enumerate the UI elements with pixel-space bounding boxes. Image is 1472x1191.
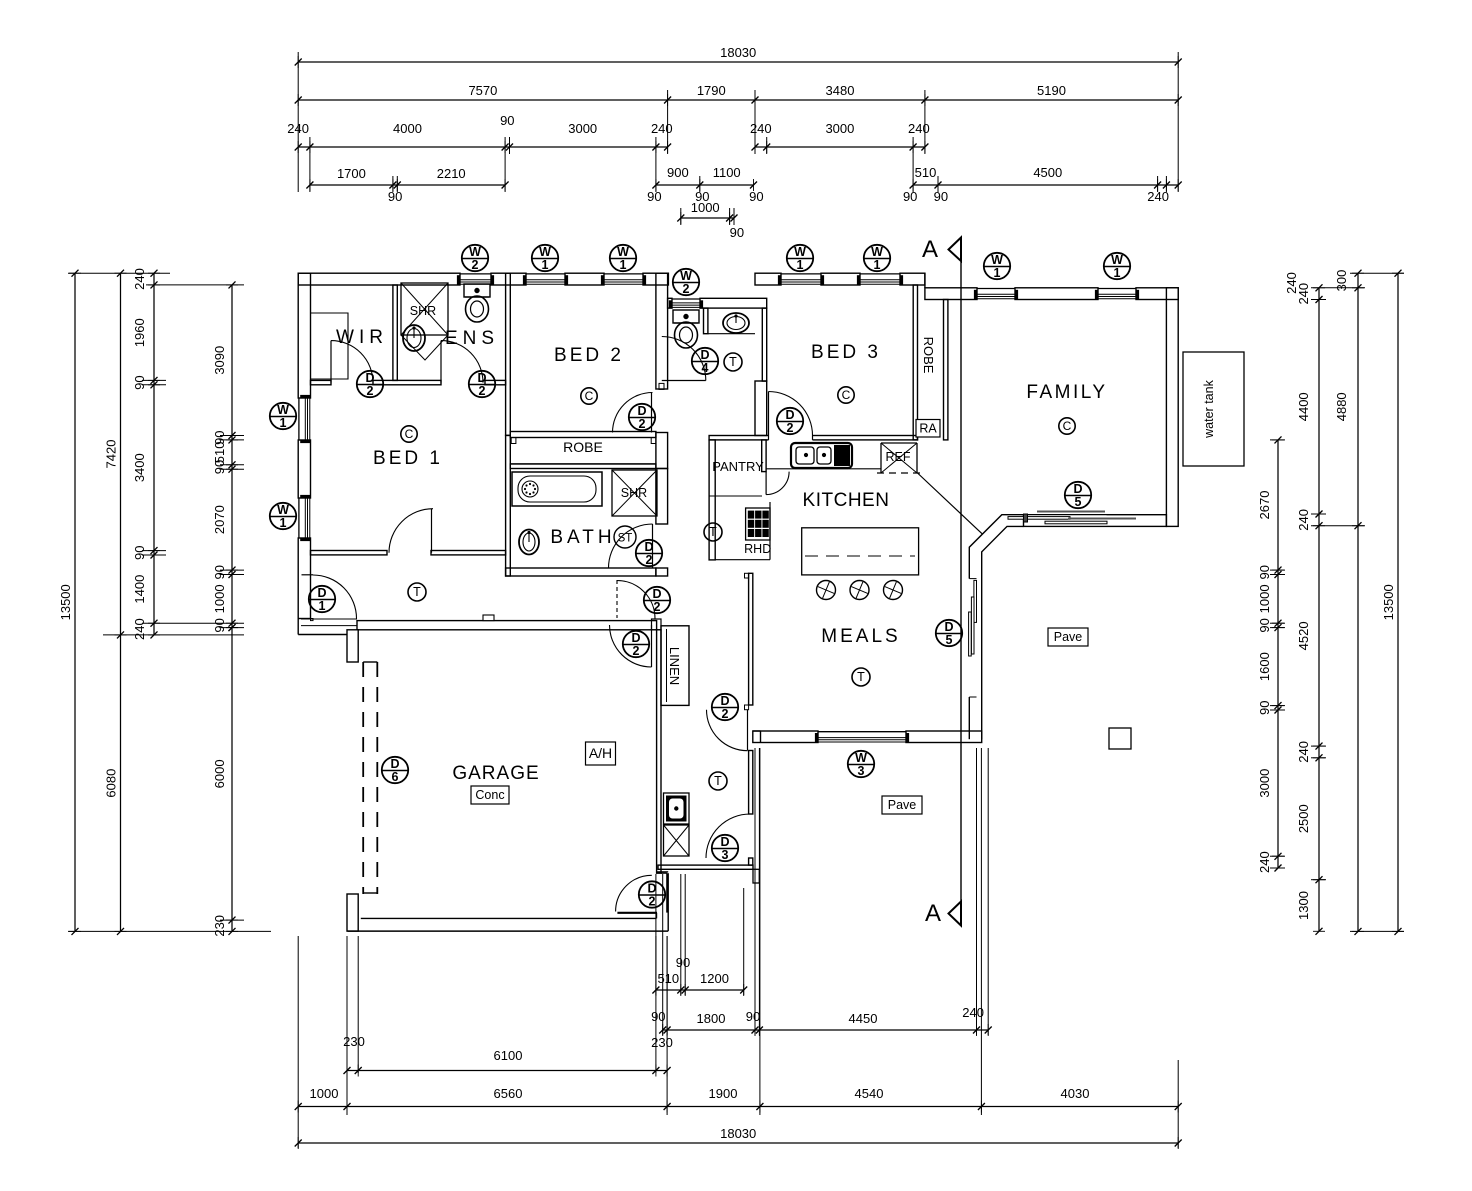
svg-text:6: 6 bbox=[392, 770, 399, 784]
svg-text:1: 1 bbox=[542, 258, 549, 272]
svg-text:90: 90 bbox=[676, 955, 690, 970]
svg-text:90: 90 bbox=[1257, 565, 1272, 579]
svg-text:240: 240 bbox=[962, 1005, 984, 1020]
svg-text:W: W bbox=[539, 245, 551, 259]
svg-text:W: W bbox=[871, 245, 883, 259]
svg-text:6000: 6000 bbox=[212, 759, 227, 788]
svg-text:18030: 18030 bbox=[720, 45, 756, 60]
svg-text:1000: 1000 bbox=[691, 200, 720, 215]
svg-text:BED 3: BED 3 bbox=[811, 342, 881, 363]
svg-text:2070: 2070 bbox=[212, 505, 227, 534]
svg-text:1400: 1400 bbox=[132, 575, 147, 604]
svg-text:1800: 1800 bbox=[697, 1011, 726, 1026]
svg-text:W: W bbox=[1111, 253, 1123, 267]
svg-text:4450: 4450 bbox=[849, 1011, 878, 1026]
svg-text:1300: 1300 bbox=[1296, 891, 1311, 920]
svg-text:240: 240 bbox=[1284, 272, 1299, 294]
svg-text:D: D bbox=[477, 371, 486, 385]
svg-text:1200: 1200 bbox=[700, 971, 729, 986]
svg-text:230: 230 bbox=[343, 1034, 365, 1049]
svg-text:Pave: Pave bbox=[1054, 630, 1083, 644]
svg-text:W: W bbox=[991, 253, 1003, 267]
svg-text:240: 240 bbox=[750, 121, 772, 136]
svg-text:D: D bbox=[637, 404, 646, 418]
svg-text:240: 240 bbox=[1257, 851, 1272, 873]
svg-text:1: 1 bbox=[797, 258, 804, 272]
svg-text:5: 5 bbox=[946, 633, 953, 647]
svg-text:2: 2 bbox=[646, 553, 653, 567]
svg-text:FAMILY: FAMILY bbox=[1026, 382, 1107, 403]
svg-text:2670: 2670 bbox=[1257, 491, 1272, 520]
svg-text:4500: 4500 bbox=[1033, 165, 1062, 180]
svg-text:BATH: BATH bbox=[550, 527, 615, 548]
svg-text:1700: 1700 bbox=[337, 166, 366, 181]
svg-text:2: 2 bbox=[472, 258, 479, 272]
svg-text:4540: 4540 bbox=[855, 1086, 884, 1101]
svg-text:900: 900 bbox=[667, 165, 689, 180]
svg-text:6100: 6100 bbox=[494, 1048, 523, 1063]
svg-text:240: 240 bbox=[132, 618, 147, 640]
svg-text:90: 90 bbox=[500, 113, 514, 128]
svg-text:5190: 5190 bbox=[1037, 83, 1066, 98]
svg-text:90: 90 bbox=[730, 225, 744, 240]
svg-text:T: T bbox=[709, 525, 717, 539]
svg-text:Conc: Conc bbox=[475, 788, 504, 802]
svg-text:C: C bbox=[1063, 419, 1072, 433]
svg-text:90: 90 bbox=[1257, 618, 1272, 632]
svg-text:D: D bbox=[644, 540, 653, 554]
svg-text:6560: 6560 bbox=[494, 1086, 523, 1101]
svg-text:13500: 13500 bbox=[58, 584, 73, 620]
svg-text:A/H: A/H bbox=[589, 745, 612, 761]
svg-text:2: 2 bbox=[722, 707, 729, 721]
svg-text:2210: 2210 bbox=[437, 166, 466, 181]
svg-text:3: 3 bbox=[722, 848, 729, 862]
svg-text:T: T bbox=[729, 355, 737, 369]
svg-text:90: 90 bbox=[212, 565, 227, 579]
svg-text:3090: 3090 bbox=[212, 346, 227, 375]
svg-text:230: 230 bbox=[651, 1035, 673, 1050]
svg-text:90: 90 bbox=[212, 618, 227, 632]
svg-text:RA: RA bbox=[919, 422, 937, 436]
svg-text:90: 90 bbox=[388, 189, 402, 204]
svg-text:BED 2: BED 2 bbox=[554, 345, 624, 366]
svg-text:WIR: WIR bbox=[336, 327, 388, 348]
svg-text:4000: 4000 bbox=[393, 121, 422, 136]
svg-text:3000: 3000 bbox=[1257, 769, 1272, 798]
svg-text:3000: 3000 bbox=[568, 121, 597, 136]
svg-text:5: 5 bbox=[1075, 495, 1082, 509]
svg-text:6080: 6080 bbox=[104, 769, 119, 798]
svg-text:90: 90 bbox=[903, 189, 917, 204]
svg-text:W: W bbox=[794, 245, 806, 259]
svg-text:SHR: SHR bbox=[410, 304, 436, 318]
svg-text:D: D bbox=[720, 835, 729, 849]
svg-text:1: 1 bbox=[319, 599, 326, 613]
svg-text:2: 2 bbox=[683, 282, 690, 296]
svg-text:2: 2 bbox=[649, 895, 656, 909]
svg-text:1: 1 bbox=[620, 258, 627, 272]
svg-text:240: 240 bbox=[132, 268, 147, 290]
svg-text:1: 1 bbox=[994, 266, 1001, 280]
svg-text:D: D bbox=[390, 757, 399, 771]
svg-text:4520: 4520 bbox=[1296, 621, 1311, 650]
svg-text:3000: 3000 bbox=[825, 121, 854, 136]
svg-text:D: D bbox=[365, 371, 374, 385]
svg-text:4: 4 bbox=[702, 361, 709, 375]
svg-text:90: 90 bbox=[1257, 701, 1272, 715]
svg-text:W: W bbox=[277, 503, 289, 517]
svg-text:BED 1: BED 1 bbox=[373, 448, 443, 469]
svg-text:1: 1 bbox=[874, 258, 881, 272]
svg-text:T: T bbox=[714, 774, 722, 788]
svg-text:W: W bbox=[277, 403, 289, 417]
svg-text:7420: 7420 bbox=[104, 440, 119, 469]
svg-text:T: T bbox=[857, 670, 865, 684]
svg-text:C: C bbox=[405, 427, 414, 441]
svg-text:90: 90 bbox=[749, 189, 763, 204]
svg-text:ROBE: ROBE bbox=[921, 337, 936, 374]
svg-text:1100: 1100 bbox=[713, 165, 741, 180]
svg-text:LINEN: LINEN bbox=[667, 647, 682, 685]
svg-text:3: 3 bbox=[858, 764, 865, 778]
svg-text:1000: 1000 bbox=[310, 1086, 339, 1101]
svg-text:C: C bbox=[842, 388, 851, 402]
svg-text:PANTRY: PANTRY bbox=[712, 459, 764, 474]
svg-text:MEALS: MEALS bbox=[821, 626, 900, 647]
svg-text:W: W bbox=[855, 751, 867, 765]
svg-text:240: 240 bbox=[651, 121, 673, 136]
svg-text:1: 1 bbox=[1114, 266, 1121, 280]
svg-text:7570: 7570 bbox=[468, 83, 497, 98]
svg-text:2: 2 bbox=[633, 644, 640, 658]
svg-text:D: D bbox=[720, 694, 729, 708]
svg-text:KITCHEN: KITCHEN bbox=[803, 490, 890, 511]
svg-text:1790: 1790 bbox=[697, 83, 726, 98]
svg-text:90: 90 bbox=[132, 546, 147, 560]
svg-text:240: 240 bbox=[908, 121, 930, 136]
svg-text:90: 90 bbox=[647, 189, 661, 204]
svg-text:GARAGE: GARAGE bbox=[452, 763, 539, 784]
svg-text:D: D bbox=[317, 586, 326, 600]
svg-text:4880: 4880 bbox=[1334, 392, 1349, 421]
svg-text:REF: REF bbox=[886, 450, 911, 464]
svg-text:T: T bbox=[413, 585, 421, 599]
svg-text:3480: 3480 bbox=[826, 83, 855, 98]
svg-text:1960: 1960 bbox=[132, 318, 147, 347]
svg-text:A: A bbox=[925, 900, 941, 927]
svg-text:18030: 18030 bbox=[720, 1126, 756, 1141]
svg-text:D: D bbox=[700, 348, 709, 362]
svg-text:Pave: Pave bbox=[888, 798, 917, 812]
svg-text:4400: 4400 bbox=[1296, 392, 1311, 421]
svg-text:D: D bbox=[647, 881, 656, 895]
svg-text:2: 2 bbox=[367, 384, 374, 398]
svg-text:90: 90 bbox=[651, 1009, 665, 1024]
svg-text:240: 240 bbox=[1296, 741, 1311, 763]
svg-text:ST: ST bbox=[618, 533, 633, 545]
svg-text:SHR: SHR bbox=[621, 486, 647, 500]
svg-text:2: 2 bbox=[654, 600, 661, 614]
svg-text:2: 2 bbox=[787, 421, 794, 435]
svg-text:90: 90 bbox=[934, 189, 948, 204]
svg-text:2: 2 bbox=[479, 384, 486, 398]
svg-text:90: 90 bbox=[746, 1009, 760, 1024]
svg-text:1000: 1000 bbox=[1257, 584, 1272, 613]
svg-text:1: 1 bbox=[280, 416, 287, 430]
svg-text:230: 230 bbox=[212, 915, 227, 937]
svg-text:W: W bbox=[617, 245, 629, 259]
svg-text:C: C bbox=[585, 389, 594, 403]
svg-text:ROBE: ROBE bbox=[563, 439, 603, 455]
svg-text:90: 90 bbox=[212, 460, 227, 474]
svg-text:D: D bbox=[785, 408, 794, 422]
svg-text:510: 510 bbox=[657, 971, 679, 986]
svg-text:1600: 1600 bbox=[1257, 652, 1272, 681]
svg-text:510: 510 bbox=[915, 165, 937, 180]
svg-text:240: 240 bbox=[1296, 509, 1311, 531]
svg-text:D: D bbox=[631, 631, 640, 645]
svg-text:D: D bbox=[652, 587, 661, 601]
svg-text:D: D bbox=[944, 620, 953, 634]
svg-text:1: 1 bbox=[280, 516, 287, 530]
svg-text:3400: 3400 bbox=[132, 453, 147, 482]
svg-text:2: 2 bbox=[639, 417, 646, 431]
svg-text:W: W bbox=[469, 245, 481, 259]
svg-text:1000: 1000 bbox=[212, 584, 227, 613]
svg-text:ENS: ENS bbox=[445, 328, 499, 349]
svg-text:A: A bbox=[922, 236, 938, 263]
svg-text:4030: 4030 bbox=[1061, 1086, 1090, 1101]
svg-text:W: W bbox=[680, 269, 692, 283]
svg-text:water tank: water tank bbox=[1202, 379, 1216, 438]
svg-text:D: D bbox=[1073, 482, 1082, 496]
svg-text:RHD: RHD bbox=[744, 542, 771, 556]
svg-text:1900: 1900 bbox=[709, 1086, 738, 1101]
svg-text:90: 90 bbox=[132, 375, 147, 389]
svg-text:13500: 13500 bbox=[1381, 584, 1396, 620]
svg-text:2500: 2500 bbox=[1296, 804, 1311, 833]
